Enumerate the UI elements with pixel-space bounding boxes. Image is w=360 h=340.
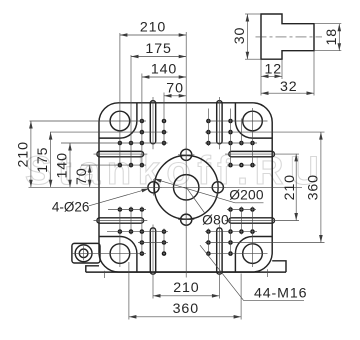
svg-text:210: 210 [15,141,31,167]
svg-text:32: 32 [280,79,298,95]
svg-text:210: 210 [173,280,199,296]
svg-text:210: 210 [140,20,166,36]
svg-text:140: 140 [151,62,177,78]
svg-text:18: 18 [324,28,340,46]
svg-text:4-Ø26: 4-Ø26 [52,200,90,215]
svg-text:12: 12 [265,62,283,78]
svg-text:30: 30 [232,27,248,45]
svg-text:44-M16: 44-M16 [254,285,308,301]
svg-text:175: 175 [145,41,171,57]
svg-text:70: 70 [74,167,90,185]
svg-text:210: 210 [282,174,298,200]
svg-text:Ø80: Ø80 [202,212,229,227]
svg-text:Ø200: Ø200 [229,187,264,202]
svg-text:140: 140 [55,152,71,178]
svg-text:360: 360 [305,174,321,200]
svg-text:360: 360 [173,301,199,317]
svg-text:175: 175 [35,147,51,173]
svg-text:70: 70 [166,80,184,96]
